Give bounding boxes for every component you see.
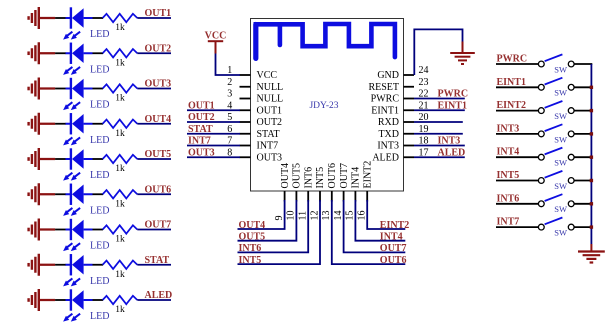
ground (LED row OUT4) [29, 113, 55, 135]
wire pin 12 to INT5 label [238, 200, 321, 264]
svg-text:INT4: INT4 [351, 167, 362, 189]
pin 23 (RESET) right side [368, 77, 428, 93]
pin 10 (OUT5) bottom side [286, 163, 303, 221]
svg-text:OUT3: OUT3 [188, 147, 215, 158]
svg-text:OUT3: OUT3 [145, 79, 172, 90]
svg-text:ALED: ALED [438, 147, 466, 158]
svg-text:ALED: ALED [372, 152, 399, 163]
pin 13 (OUT6) bottom side [321, 163, 338, 221]
switch SW6 (INT5) [538, 171, 574, 191]
svg-text:SW: SW [554, 134, 567, 144]
junction EINT2 bus [590, 109, 593, 112]
wire ground to LED [55, 123, 66, 125]
ground (LED row OUT5) [29, 148, 55, 170]
svg-text:1k: 1k [115, 235, 125, 245]
svg-text:INT3: INT3 [377, 141, 399, 152]
junction INT5 bus [590, 179, 593, 182]
wire pin 6 to net label [187, 133, 240, 135]
antenna meander inside JDY-23 [256, 24, 395, 58]
wire resistor to OUT4 label [137, 123, 171, 125]
svg-text:OUT2: OUT2 [188, 112, 215, 123]
wire LED to resistor [93, 52, 104, 54]
LED D8 (STAT row) [63, 254, 109, 287]
wire LED to resistor [93, 123, 104, 125]
svg-text:LED: LED [90, 135, 109, 146]
LED D5 (OUT5 row) [63, 148, 109, 181]
svg-text:1k: 1k [115, 23, 125, 33]
wire LED to resistor [93, 229, 104, 231]
wire LED to resistor [93, 17, 104, 19]
svg-text:VCC: VCC [257, 70, 278, 81]
svg-text:1k: 1k [115, 199, 125, 209]
wire ground to LED [55, 299, 66, 301]
svg-text:LED: LED [90, 241, 109, 252]
wire pin 21 right [414, 109, 465, 111]
wire switch to bus [574, 203, 592, 205]
pin 19 (TXD) right side [378, 124, 428, 140]
svg-text:OUT7: OUT7 [145, 220, 172, 231]
wire pin 7 to net label [187, 145, 240, 147]
svg-text:13: 13 [321, 211, 332, 221]
wire PWRC to switch [496, 63, 538, 65]
wire EINT1 to switch [496, 86, 538, 88]
svg-text:OUT6: OUT6 [380, 255, 407, 266]
svg-text:INT5: INT5 [239, 255, 262, 266]
svg-text:OUT5: OUT5 [292, 163, 303, 189]
svg-text:PWRC: PWRC [438, 89, 469, 100]
svg-text:1k: 1k [115, 58, 125, 68]
pin 8 (OUT3) left side [227, 147, 282, 163]
svg-text:OUT1: OUT1 [257, 105, 283, 116]
wire resistor to OUT3 label [137, 88, 171, 90]
svg-text:INT3: INT3 [497, 123, 520, 134]
wire VCC to pin 1 [216, 54, 241, 76]
svg-text:LED: LED [90, 205, 109, 216]
junction EINT1 bus [590, 86, 593, 89]
wire LED to resistor [93, 158, 104, 160]
wire switch to bus [574, 63, 592, 65]
svg-text:INT6: INT6 [239, 243, 262, 254]
wire resistor to OUT2 label [137, 52, 171, 54]
svg-text:VCC: VCC [205, 31, 227, 42]
svg-text:16: 16 [357, 211, 368, 221]
LED D1 (OUT1 row) [63, 7, 109, 40]
wire ground to LED [55, 17, 66, 19]
wire pin 24 GND to ground [414, 29, 462, 75]
svg-text:SW: SW [554, 64, 567, 74]
svg-text:LED: LED [90, 64, 109, 75]
svg-text:GND: GND [377, 70, 399, 81]
pin 21 (EINT1) right side [371, 100, 428, 116]
svg-text:SW: SW [554, 88, 567, 98]
svg-text:1k: 1k [115, 305, 125, 315]
wire pin 20 right [414, 121, 463, 123]
svg-text:LED: LED [90, 29, 109, 40]
pin 2 (NULL) left side [227, 77, 283, 93]
svg-text:INT7: INT7 [188, 136, 211, 147]
resistor R5 1k [103, 155, 138, 174]
wire pin 10 to OUT5 label [238, 200, 297, 241]
wire INT4 to switch [496, 156, 538, 158]
pin 15 (INT4) bottom side [345, 167, 362, 221]
wire pin 15 to INT4 label [355, 200, 405, 241]
svg-text:STAT: STAT [145, 255, 170, 266]
svg-text:1k: 1k [115, 270, 125, 280]
pin 20 (RXD) right side [378, 112, 429, 128]
wire resistor to OUT1 label [137, 17, 171, 19]
wire ground to LED [55, 88, 66, 90]
resistor R2 1k [103, 49, 138, 68]
svg-text:OUT1: OUT1 [145, 8, 172, 19]
svg-text:15: 15 [345, 211, 356, 221]
svg-text:OUT7: OUT7 [339, 163, 350, 189]
resistor R4 1k [103, 120, 138, 139]
switch SW1 (PWRC) [538, 54, 574, 74]
wire EINT2 to switch [496, 110, 538, 112]
svg-text:PWRC: PWRC [497, 54, 528, 65]
svg-text:TXD: TXD [378, 129, 399, 140]
LED D9 (ALED row) [63, 289, 109, 322]
switch SW2 (EINT1) [538, 78, 574, 98]
svg-text:SW: SW [554, 111, 567, 121]
wire resistor to STAT label [137, 264, 171, 266]
pin 17 (ALED) right side [372, 147, 428, 163]
pin 5 (OUT2) left side [227, 112, 282, 128]
svg-text:LED: LED [90, 100, 109, 111]
svg-text:INT4: INT4 [497, 147, 520, 158]
wire switch to bus [574, 156, 592, 158]
svg-text:OUT4: OUT4 [145, 114, 172, 125]
wire LED to resistor [93, 88, 104, 90]
svg-text:INT4: INT4 [380, 232, 403, 243]
wire ground to LED [55, 264, 66, 266]
svg-text:OUT5: OUT5 [145, 149, 172, 160]
wire switch to bus [574, 226, 592, 228]
resistor R1 1k [103, 14, 138, 33]
switch SW7 (INT6) [538, 194, 574, 214]
svg-text:PWRC: PWRC [371, 94, 400, 105]
svg-text:STAT: STAT [188, 124, 213, 135]
svg-text:INT6: INT6 [303, 167, 314, 189]
svg-text:10: 10 [286, 211, 297, 221]
svg-text:INT7: INT7 [497, 217, 520, 228]
resistor R8 1k [103, 261, 138, 280]
svg-text:LED: LED [90, 276, 109, 287]
switch SW4 (INT3) [538, 124, 574, 144]
svg-text:OUT2: OUT2 [145, 43, 172, 54]
wire resistor to OUT6 label [137, 193, 171, 195]
pin 22 (PWRC) right side [371, 89, 429, 105]
junction INT3 bus [590, 132, 593, 135]
svg-text:11: 11 [298, 211, 309, 221]
resistor R9 1k [103, 296, 138, 315]
svg-text:OUT6: OUT6 [145, 184, 172, 195]
switch SW5 (INT4) [538, 148, 574, 168]
wire switch to bus [574, 133, 592, 135]
svg-text:OUT5: OUT5 [239, 232, 266, 243]
wire pin 9 to OUT4 label [238, 200, 285, 229]
LED D3 (OUT3 row) [63, 78, 109, 111]
pin 4 (OUT1) left side [227, 100, 282, 116]
pin 6 (STAT) left side [227, 124, 279, 140]
wire resistor to ALED label [137, 299, 171, 301]
svg-text:12: 12 [309, 211, 320, 221]
wire pin 11 to INT6 label [238, 200, 309, 252]
ground (bottom right) [578, 244, 605, 263]
switch SW8 (INT7) [538, 218, 574, 238]
pin 3 (NULL) left side [227, 89, 283, 105]
svg-text:INT5: INT5 [497, 170, 520, 181]
wire pin 18 right [414, 145, 465, 147]
wire pin 4 to net label [187, 109, 240, 111]
wire pin 16 to EINT2 label [367, 200, 405, 229]
wire bus (switch common) [590, 64, 592, 244]
wire ground to LED [55, 229, 66, 231]
junction INT7 bus [590, 225, 593, 228]
svg-text:INT7: INT7 [257, 141, 279, 152]
wire pin 22 right [414, 98, 465, 100]
pin 14 (OUT7) bottom side [333, 163, 350, 221]
svg-text:2: 2 [227, 77, 232, 88]
wire pin 8 to net label [187, 156, 240, 158]
wire ground to LED [55, 52, 66, 54]
power VCC symbol [205, 31, 227, 54]
svg-text:INT5: INT5 [315, 167, 326, 189]
svg-text:JDY-23: JDY-23 [309, 101, 338, 111]
pin 18 (INT3) right side [377, 136, 428, 152]
pin 7 (INT7) left side [227, 136, 278, 152]
svg-text:9: 9 [274, 216, 285, 221]
wire INT6 to switch [496, 203, 538, 205]
wire switch to bus [574, 110, 592, 112]
resistor R6 1k [103, 190, 138, 209]
svg-text:NULL: NULL [257, 94, 284, 105]
svg-text:SW: SW [554, 158, 567, 168]
LED D4 (OUT4 row) [63, 113, 109, 146]
ground (LED row OUT1) [29, 7, 55, 29]
svg-text:23: 23 [419, 77, 429, 88]
wire ground to LED [55, 158, 66, 160]
svg-text:3: 3 [227, 89, 232, 100]
svg-text:RESET: RESET [368, 82, 399, 93]
ground (top right) [450, 42, 475, 65]
pin 12 (INT5) bottom side [309, 167, 326, 221]
wire LED to resistor [93, 299, 104, 301]
svg-text:14: 14 [333, 211, 344, 221]
wire pin 14 to OUT7 label [344, 200, 406, 252]
svg-text:EINT1: EINT1 [438, 100, 467, 111]
svg-text:OUT6: OUT6 [327, 163, 338, 189]
svg-text:RXD: RXD [378, 117, 399, 128]
svg-text:1k: 1k [115, 94, 125, 104]
svg-text:OUT1: OUT1 [188, 100, 215, 111]
svg-text:LED: LED [90, 170, 109, 181]
pin 1 (VCC) left side [227, 65, 277, 81]
svg-text:EINT2: EINT2 [380, 220, 409, 231]
wire INT3 to switch [496, 133, 538, 135]
resistor R3 1k [103, 84, 138, 103]
svg-text:EINT2: EINT2 [497, 100, 526, 111]
svg-text:INT6: INT6 [497, 193, 520, 204]
op-amp U1 JDY-23 module body [251, 19, 404, 192]
svg-text:EINT1: EINT1 [371, 105, 399, 116]
svg-text:OUT7: OUT7 [380, 243, 407, 254]
svg-text:EINT2: EINT2 [362, 161, 373, 189]
wire INT5 to switch [496, 180, 538, 182]
LED D6 (OUT6 row) [63, 184, 109, 217]
svg-text:OUT4: OUT4 [239, 220, 266, 231]
svg-text:SW: SW [554, 204, 567, 214]
wire switch to bus [574, 86, 592, 88]
LED D7 (OUT7 row) [63, 219, 109, 252]
ground (LED row OUT7) [29, 219, 55, 241]
svg-text:OUT3: OUT3 [257, 152, 283, 163]
svg-text:SW: SW [554, 181, 567, 191]
junction INT6 bus [590, 202, 593, 205]
svg-text:NULL: NULL [257, 82, 284, 93]
wire pin 17 right [414, 156, 465, 158]
wire LED to resistor [93, 264, 104, 266]
junction INT4 bus [590, 156, 593, 159]
svg-text:LED: LED [90, 311, 109, 322]
wire pin 13 to OUT6 label [332, 200, 406, 264]
switch SW3 (EINT2) [538, 101, 574, 121]
svg-text:24: 24 [419, 65, 429, 76]
resistor R7 1k [103, 225, 138, 244]
wire resistor to OUT7 label [137, 229, 171, 231]
svg-text:SW: SW [554, 228, 567, 238]
pin 9 (OUT4) bottom side [274, 163, 291, 221]
svg-text:ALED: ALED [145, 290, 173, 301]
svg-text:OUT2: OUT2 [257, 117, 283, 128]
pin 24 (GND) right side [377, 65, 428, 81]
pin 16 (EINT2) bottom side [357, 161, 374, 221]
pin 11 (INT6) bottom side [298, 167, 315, 221]
ground (LED row OUT6) [29, 183, 55, 205]
wire INT7 to switch [496, 226, 538, 228]
ground (LED row STAT) [29, 254, 55, 276]
wire resistor to OUT5 label [137, 158, 171, 160]
ground (LED row OUT3) [29, 78, 55, 100]
ground (LED row OUT2) [29, 42, 55, 64]
wire switch to bus [574, 180, 592, 182]
wire ground to LED [55, 193, 66, 195]
svg-text:1k: 1k [115, 129, 125, 139]
LED D2 (OUT2 row) [63, 43, 109, 76]
svg-text:OUT4: OUT4 [280, 163, 291, 189]
svg-text:1k: 1k [115, 164, 125, 174]
svg-text:STAT: STAT [257, 129, 280, 140]
ground (LED row ALED) [29, 289, 55, 311]
wire pin 5 to net label [187, 121, 240, 123]
svg-text:INT3: INT3 [438, 136, 461, 147]
svg-text:EINT1: EINT1 [497, 77, 526, 88]
wire LED to resistor [93, 193, 104, 195]
wire pin 19 right [414, 133, 463, 135]
